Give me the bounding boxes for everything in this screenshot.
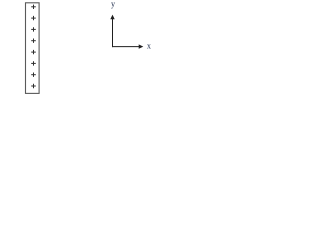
plus charge 3 (31, 27, 36, 31)
y axis line (112, 18, 114, 48)
y axis arrowhead (110, 15, 114, 20)
plus charge 1 (31, 5, 36, 9)
x axis line (112, 46, 140, 48)
plus charge 2 (31, 16, 36, 20)
plus charge 4 (31, 39, 36, 43)
x axis arrowhead (139, 44, 144, 48)
plus charge 8 (31, 84, 36, 88)
plus charge 5 (31, 50, 36, 54)
plus charge 7 (31, 73, 36, 77)
plus charge 6 (31, 61, 36, 65)
charged rod outline (26, 3, 40, 94)
svg-text:x: x (147, 42, 151, 51)
svg-text:y: y (111, 0, 116, 9)
